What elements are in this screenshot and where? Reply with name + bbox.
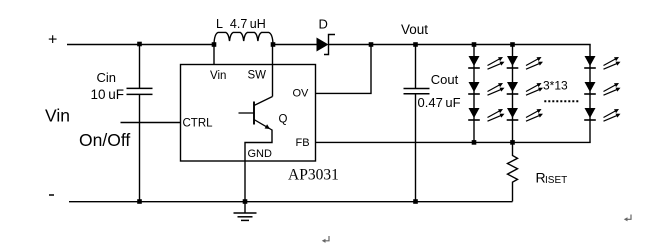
- wire: emitter to GND pin: [245, 130, 272, 202]
- diode D (schottky): [317, 38, 329, 52]
- wire: LED column 2: [512, 45, 514, 143]
- LED D6: [507, 108, 543, 121]
- wire: LED column 3: [589, 45, 591, 143]
- junction dot Cout bottom: [413, 199, 418, 204]
- svg-text:CTRL: CTRL: [183, 117, 214, 129]
- svg-text:GND: GND: [248, 148, 273, 160]
- svg-text:L 4.7 uH: L 4.7 uH: [216, 17, 266, 31]
- inductor L1: [214, 32, 273, 44]
- capacitor Cin branch wire upper: [139, 45, 141, 89]
- svg-text:D: D: [319, 17, 328, 32]
- op IC U1 AP3031 body: [181, 65, 316, 162]
- wire: LED column 1: [473, 45, 475, 143]
- LED D9: [584, 108, 620, 121]
- wire: bottom ground rail: [69, 201, 513, 203]
- junction dot Cin top: [137, 42, 142, 47]
- resistor RISET: [508, 142, 518, 201]
- wire: inductor to diode: [273, 44, 317, 46]
- capacitor Cin branch wire lower: [139, 94, 141, 201]
- svg-text:Cin: Cin: [97, 70, 117, 85]
- LED D7: [584, 56, 620, 69]
- LED D5: [507, 82, 543, 95]
- svg-text:Vin: Vin: [210, 70, 226, 82]
- wire: OV pin to Vout rail: [316, 45, 372, 94]
- svg-text:Q: Q: [279, 113, 288, 125]
- svg-text:0.47 uF: 0.47 uF: [418, 95, 461, 110]
- wire: SW pin / transistor collector riser: [272, 45, 274, 97]
- svg-text:ISET: ISET: [545, 175, 567, 186]
- junction dot OV riser at top rail: [369, 42, 374, 47]
- svg-text:10 uF: 10 uF: [91, 87, 124, 102]
- svg-text:Vout: Vout: [401, 22, 428, 37]
- junction dot Cin bottom: [137, 199, 142, 204]
- svg-text:On/Off: On/Off: [79, 130, 130, 150]
- capacitor Cout branch wire upper: [415, 45, 417, 89]
- transistor Q (NPN): [253, 102, 255, 125]
- return mark (editor glyph) bottom center: [324, 236, 329, 241]
- junction dot col1 bottom: [472, 140, 477, 145]
- wire: top rail from + to inductor: [67, 44, 214, 46]
- terminal - (negative input): [49, 194, 54, 196]
- wire: On/Off input to CTRL pin: [121, 122, 181, 124]
- wire: Vin pin from top rail into IC: [213, 45, 215, 65]
- svg-text:Vin: Vin: [45, 106, 70, 126]
- svg-text:FB: FB: [296, 137, 310, 149]
- svg-text:AP3031: AP3031: [288, 167, 339, 184]
- junction dot col2 top: [510, 42, 515, 47]
- wire: diode to LED array top rail (node Vout): [329, 44, 591, 46]
- junction dot Cout top: [413, 42, 418, 47]
- ellipsis dotted line (omitted columns): [544, 100, 579, 102]
- return mark (editor glyph) right: [626, 215, 631, 220]
- capacitor Cin: [127, 87, 153, 89]
- wire: FB pin / LED array bottom rail: [316, 141, 591, 143]
- svg-text:Cout: Cout: [431, 72, 459, 87]
- capacitor Cout: [404, 88, 430, 90]
- junction dot col1 top: [472, 42, 477, 47]
- junction dot GND pin at rail: [243, 199, 248, 204]
- ground symbol: [244, 202, 246, 214]
- svg-text:3*13: 3*13: [543, 78, 568, 92]
- svg-text:+: +: [48, 32, 57, 49]
- LED D3: [468, 108, 504, 121]
- LED D2: [468, 82, 504, 95]
- junction dot at inductor left (node VIN): [212, 42, 217, 47]
- LED D1: [468, 56, 504, 69]
- junction dot at inductor right (node SW): [271, 42, 276, 47]
- svg-text:SW: SW: [248, 70, 267, 82]
- LED D4: [507, 56, 543, 69]
- junction dot col2 bottom: [510, 140, 515, 145]
- svg-text:OV: OV: [293, 88, 310, 100]
- LED D8: [584, 82, 620, 95]
- capacitor Cout branch wire lower: [415, 94, 417, 202]
